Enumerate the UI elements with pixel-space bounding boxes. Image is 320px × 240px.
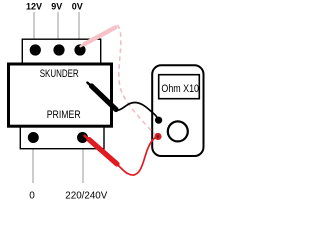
svg-text:0V: 0V xyxy=(72,2,83,12)
svg-text:PRIMER: PRIMER xyxy=(47,109,81,121)
svg-text:9V: 9V xyxy=(51,2,62,12)
svg-text:0: 0 xyxy=(29,191,35,202)
svg-text:12V: 12V xyxy=(26,2,42,12)
svg-text:220/240V: 220/240V xyxy=(65,191,107,202)
svg-text:SKUNDER: SKUNDER xyxy=(40,68,79,80)
svg-text:Ohm X10: Ohm X10 xyxy=(161,83,199,95)
